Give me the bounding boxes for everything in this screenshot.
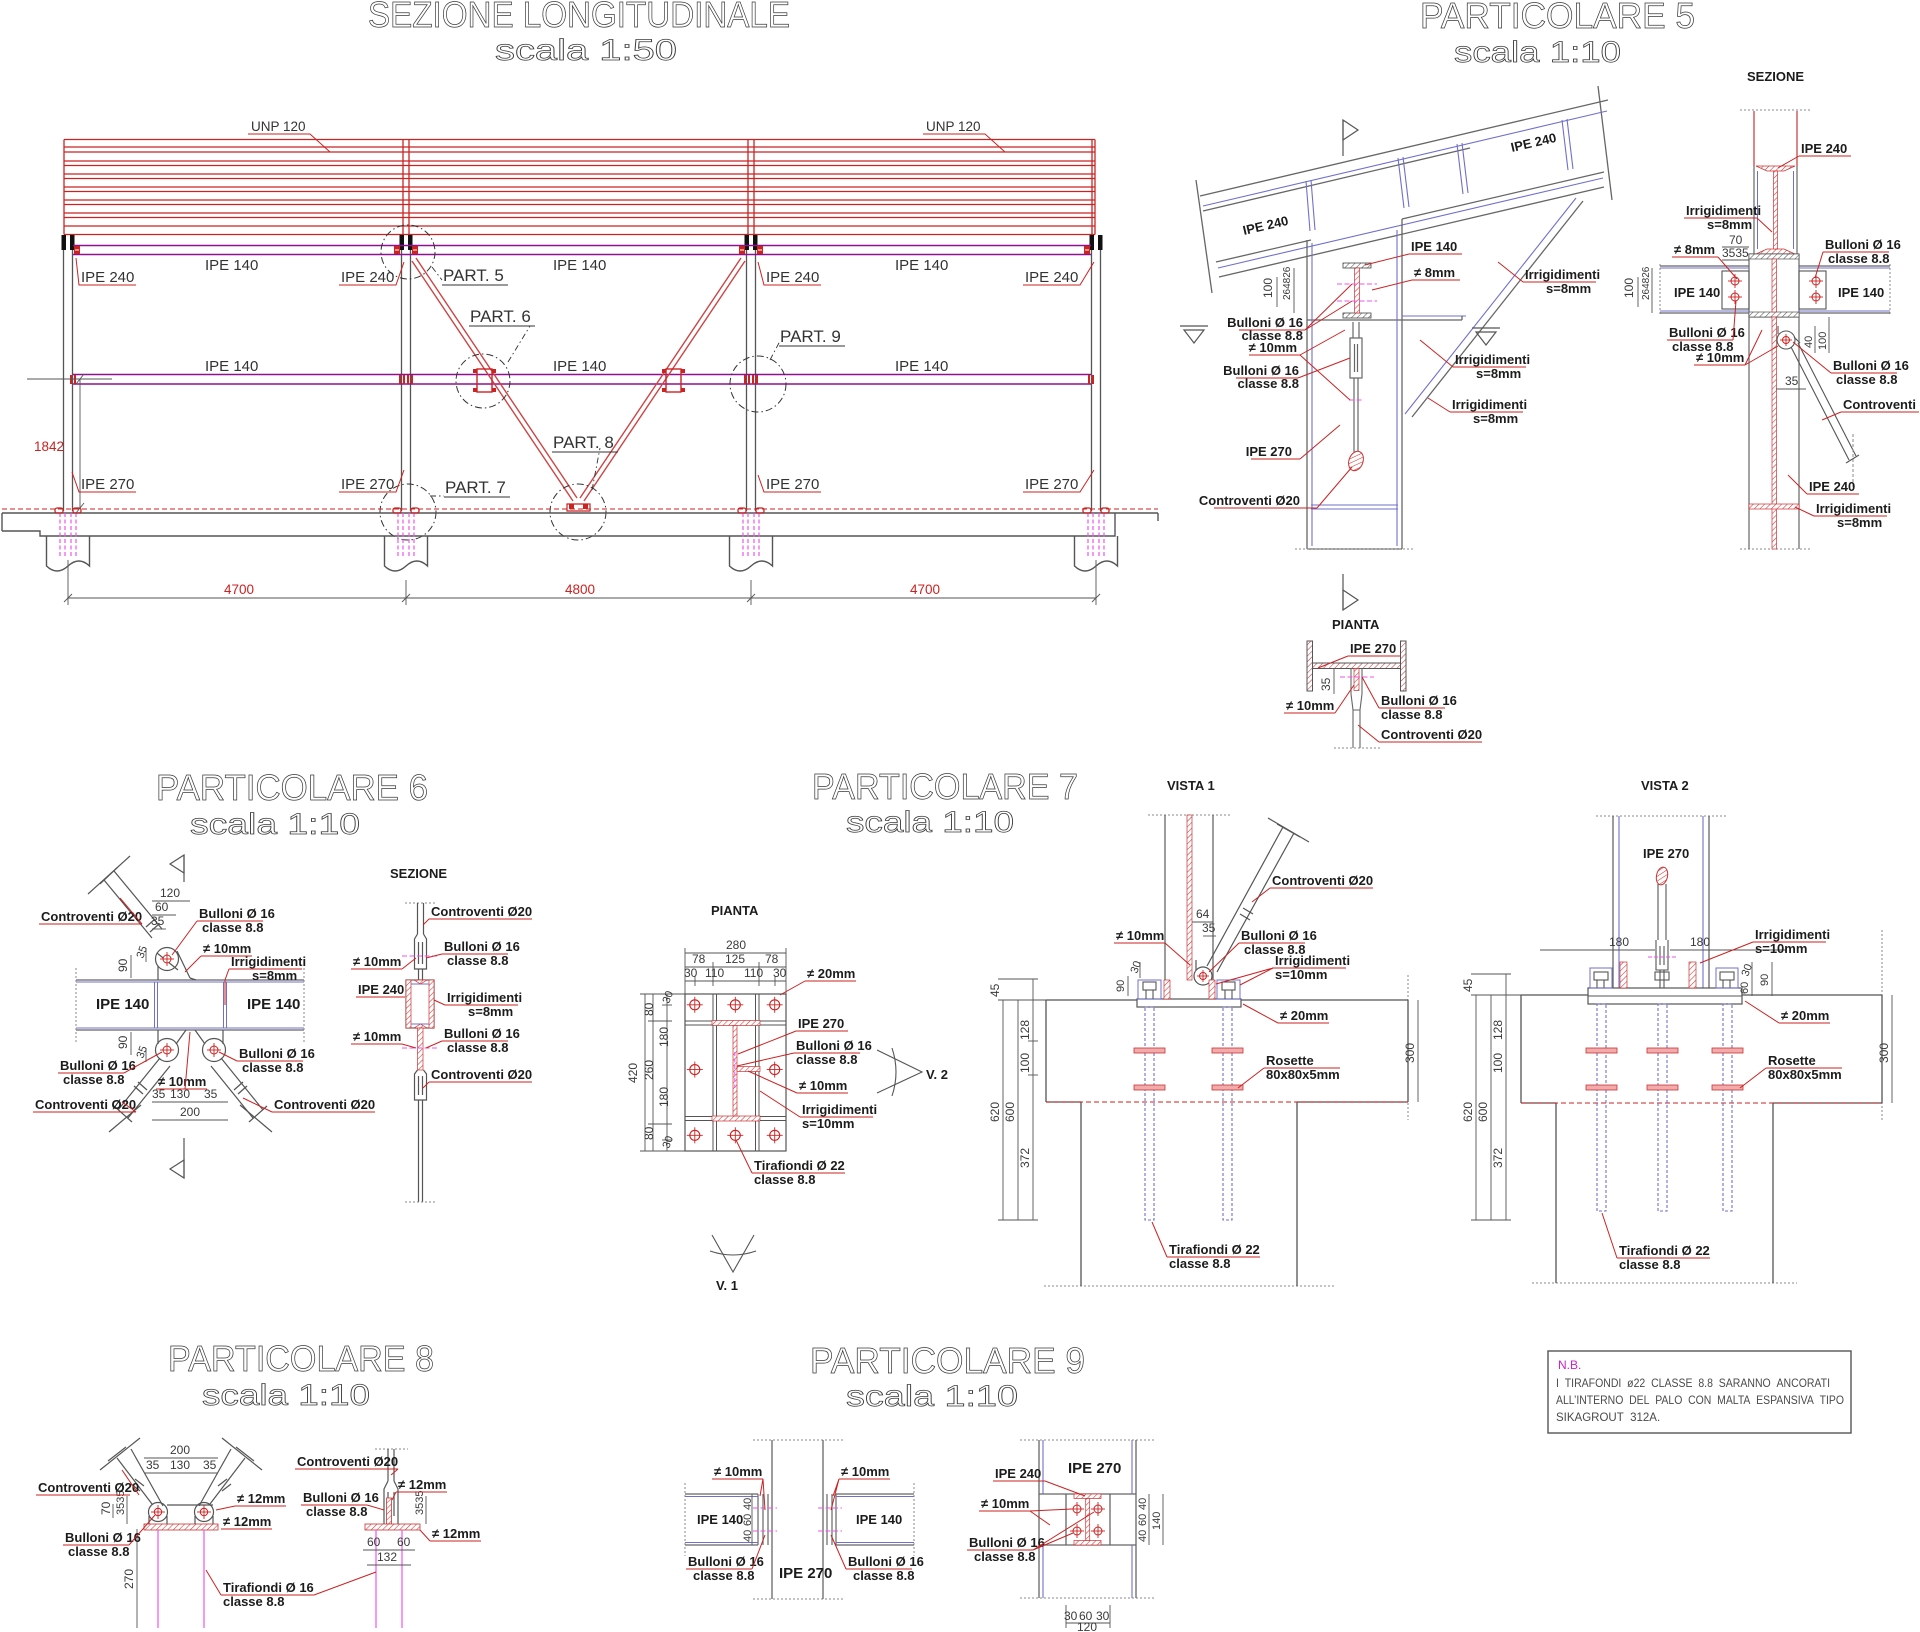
svg-text:620: 620 <box>988 1102 1002 1122</box>
svg-text:scala 1:10: scala 1:10 <box>1454 36 1621 69</box>
svg-text:≠ 10mm: ≠ 10mm <box>1696 350 1744 365</box>
svg-text:620: 620 <box>1461 1102 1475 1122</box>
svg-text:s=8mm: s=8mm <box>1707 217 1752 232</box>
svg-text:≠ 10mm: ≠ 10mm <box>841 1464 889 1479</box>
svg-text:Controventi Ø20: Controventi Ø20 <box>431 1067 532 1082</box>
svg-text:180: 180 <box>1690 935 1710 949</box>
svg-text:IPE 140: IPE 140 <box>247 996 300 1013</box>
svg-text:IPE 240: IPE 240 <box>341 269 394 286</box>
svg-text:Bulloni Ø 16: Bulloni Ø 16 <box>848 1554 924 1569</box>
svg-text:PARTICOLARE 6: PARTICOLARE 6 <box>156 767 428 808</box>
svg-text:IPE 240: IPE 240 <box>1801 141 1847 156</box>
svg-text:SIKAGROUT 312A.: SIKAGROUT 312A. <box>1556 1412 1660 1424</box>
svg-text:SEZIONE: SEZIONE <box>1747 69 1804 84</box>
svg-text:60: 60 <box>742 1514 754 1526</box>
svg-text:120: 120 <box>160 886 180 900</box>
svg-text:Bulloni Ø 16: Bulloni Ø 16 <box>1241 928 1317 943</box>
svg-text:420: 420 <box>626 1063 640 1083</box>
svg-text:280: 280 <box>726 938 746 952</box>
svg-text:IPE 240: IPE 240 <box>358 982 404 997</box>
svg-text:s=8mm: s=8mm <box>1476 366 1521 381</box>
svg-text:classe 8.8: classe 8.8 <box>306 1504 367 1519</box>
svg-text:classe 8.8: classe 8.8 <box>1836 372 1897 387</box>
svg-text:PART. 9: PART. 9 <box>780 327 841 346</box>
svg-text:Controventi Ø20: Controventi Ø20 <box>41 909 142 924</box>
svg-text:128: 128 <box>1018 1020 1032 1040</box>
svg-text:s=8mm: s=8mm <box>1473 411 1518 426</box>
svg-text:PART. 6: PART. 6 <box>470 307 531 326</box>
svg-text:Bulloni Ø 16: Bulloni Ø 16 <box>444 939 520 954</box>
svg-text:45: 45 <box>988 983 1002 997</box>
svg-text:264826: 264826 <box>1641 266 1652 300</box>
svg-text:100: 100 <box>1817 332 1829 350</box>
svg-text:Controventi Ø20: Controventi Ø20 <box>38 1480 139 1495</box>
svg-text:s=8mm: s=8mm <box>1837 515 1882 530</box>
svg-text:Irrigidimenti: Irrigidimenti <box>447 990 522 1005</box>
svg-text:Bulloni Ø 16: Bulloni Ø 16 <box>60 1058 136 1073</box>
svg-text:≠ 12mm: ≠ 12mm <box>398 1477 446 1492</box>
svg-text:ALL’INTERNO DEL PALO CON M: ALL’INTERNO DEL PALO CON MALTA ESPANSIVA… <box>1556 1395 1844 1407</box>
svg-text:PIANTA: PIANTA <box>1332 617 1380 632</box>
svg-text:60: 60 <box>367 1535 381 1549</box>
svg-text:≠ 20mm: ≠ 20mm <box>807 966 855 981</box>
svg-text:1842: 1842 <box>34 439 64 454</box>
svg-text:78: 78 <box>765 952 779 966</box>
svg-text:≠ 10mm: ≠ 10mm <box>353 954 401 969</box>
svg-text:140: 140 <box>1151 1512 1163 1530</box>
svg-text:35: 35 <box>151 914 165 928</box>
svg-text:PART. 5: PART. 5 <box>443 266 504 285</box>
svg-text:classe 8.8: classe 8.8 <box>1169 1256 1230 1271</box>
svg-text:30: 30 <box>1064 1609 1078 1623</box>
svg-text:128: 128 <box>1491 1020 1505 1040</box>
svg-text:VISTA 2: VISTA 2 <box>1641 778 1689 793</box>
svg-text:IPE 270: IPE 270 <box>1643 846 1689 861</box>
svg-text:Rosette: Rosette <box>1266 1053 1314 1068</box>
svg-text:Controventi Ø20: Controventi Ø20 <box>1272 873 1373 888</box>
svg-text:35: 35 <box>146 1458 160 1472</box>
svg-text:≠ 10mm: ≠ 10mm <box>353 1029 401 1044</box>
svg-text:Controventi Ø20: Controventi Ø20 <box>297 1454 398 1469</box>
svg-text:VISTA 1: VISTA 1 <box>1167 778 1215 793</box>
svg-text:Irrigidimenti: Irrigidimenti <box>1275 953 1350 968</box>
svg-text:40: 40 <box>1803 336 1815 348</box>
svg-text:IPE 270: IPE 270 <box>1350 641 1396 656</box>
svg-text:80x80x5mm: 80x80x5mm <box>1266 1067 1340 1082</box>
svg-text:≠ 12mm: ≠ 12mm <box>223 1514 271 1529</box>
svg-text:Tirafiondi Ø 22: Tirafiondi Ø 22 <box>1619 1243 1710 1258</box>
svg-text:Controventi Ø20: Controventi Ø20 <box>35 1097 136 1112</box>
svg-text:30: 30 <box>684 966 698 980</box>
svg-text:IPE 270: IPE 270 <box>1246 444 1292 459</box>
svg-text:classe 8.8: classe 8.8 <box>1619 1257 1680 1272</box>
svg-text:40: 40 <box>742 1530 754 1542</box>
svg-text:180: 180 <box>1609 935 1629 949</box>
svg-text:200: 200 <box>180 1105 200 1119</box>
svg-text:60: 60 <box>1739 982 1751 994</box>
svg-text:IPE 270: IPE 270 <box>1025 476 1078 493</box>
svg-text:≠ 10mm: ≠ 10mm <box>799 1078 847 1093</box>
svg-text:PARTICOLARE 8: PARTICOLARE 8 <box>168 1338 434 1379</box>
svg-text:100: 100 <box>1622 278 1636 298</box>
svg-text:V. 1: V. 1 <box>716 1278 738 1293</box>
svg-text:s=8mm: s=8mm <box>468 1004 513 1019</box>
svg-text:100: 100 <box>1491 1053 1505 1073</box>
svg-text:scala 1:10: scala 1:10 <box>846 806 1014 839</box>
svg-text:Bulloni Ø 16: Bulloni Ø 16 <box>65 1530 141 1545</box>
svg-text:Tirafiondi Ø 16: Tirafiondi Ø 16 <box>223 1580 314 1595</box>
svg-text:78: 78 <box>692 952 706 966</box>
svg-text:Irrigidimenti: Irrigidimenti <box>1686 203 1761 218</box>
svg-text:IPE 240: IPE 240 <box>1025 269 1078 286</box>
svg-text:PARTICOLARE 9: PARTICOLARE 9 <box>810 1340 1085 1381</box>
svg-text:s=8mm: s=8mm <box>1546 281 1591 296</box>
svg-text:≠ 10mm: ≠ 10mm <box>1286 698 1334 713</box>
svg-text:IPE 140: IPE 140 <box>96 996 149 1013</box>
svg-text:132: 132 <box>377 1550 397 1564</box>
svg-text:125: 125 <box>725 952 745 966</box>
svg-text:Bulloni Ø 16: Bulloni Ø 16 <box>199 906 275 921</box>
svg-text:60: 60 <box>397 1535 411 1549</box>
svg-text:40: 40 <box>1137 1530 1149 1542</box>
svg-text:s=10mm: s=10mm <box>802 1116 854 1131</box>
svg-text:90: 90 <box>1115 980 1127 992</box>
svg-text:IPE 140: IPE 140 <box>553 257 606 274</box>
svg-text:64: 64 <box>1196 907 1210 921</box>
svg-text:Controventi Ø20: Controventi Ø20 <box>431 904 532 919</box>
svg-text:IPE 240: IPE 240 <box>766 269 819 286</box>
svg-text:IPE 140: IPE 140 <box>1411 239 1457 254</box>
svg-text:IPE 270: IPE 270 <box>779 1565 832 1582</box>
svg-text:30: 30 <box>1096 1609 1110 1623</box>
svg-text:IPE 270: IPE 270 <box>81 476 134 493</box>
svg-text:110: 110 <box>744 966 763 980</box>
svg-text:≠ 20mm: ≠ 20mm <box>1781 1008 1829 1023</box>
svg-text:130: 130 <box>170 1458 190 1472</box>
svg-text:IPE 140: IPE 140 <box>553 358 606 375</box>
svg-text:≠ 10mm: ≠ 10mm <box>158 1074 206 1089</box>
svg-text:Irrigidimenti: Irrigidimenti <box>1755 927 1830 942</box>
svg-text:classe 8.8: classe 8.8 <box>693 1568 754 1583</box>
svg-text:90: 90 <box>116 1035 130 1049</box>
svg-text:Bulloni Ø 16: Bulloni Ø 16 <box>444 1026 520 1041</box>
svg-text:264826: 264826 <box>1282 266 1293 300</box>
svg-text:≠ 10mm: ≠ 10mm <box>1116 928 1164 943</box>
svg-text:260: 260 <box>642 1060 656 1080</box>
svg-text:IPE 270: IPE 270 <box>798 1016 844 1031</box>
svg-text:270: 270 <box>122 1569 136 1589</box>
svg-text:30: 30 <box>773 966 787 980</box>
svg-text:PIANTA: PIANTA <box>711 903 759 918</box>
svg-text:4700: 4700 <box>224 582 254 597</box>
svg-text:Irrigidimenti: Irrigidimenti <box>1525 267 1600 282</box>
svg-text:Tirafiondi Ø 22: Tirafiondi Ø 22 <box>1169 1242 1260 1257</box>
svg-text:I TIRAFONDI ø22 CLASSE 8.8: I TIRAFONDI ø22 CLASSE 8.8 SARANNO ANCOR… <box>1556 1378 1830 1390</box>
svg-text:60: 60 <box>1137 1514 1149 1526</box>
svg-text:UNP 120: UNP 120 <box>251 119 306 134</box>
svg-text:IPE 140: IPE 140 <box>895 257 948 274</box>
svg-text:classe 8.8: classe 8.8 <box>754 1172 815 1187</box>
svg-text:≠ 20mm: ≠ 20mm <box>1280 1008 1328 1023</box>
svg-text:PART. 8: PART. 8 <box>553 433 614 452</box>
svg-text:IPE 270: IPE 270 <box>341 476 394 493</box>
svg-text:90: 90 <box>1759 974 1771 986</box>
svg-text:4800: 4800 <box>565 582 595 597</box>
svg-text:SEZIONE LONGITUDINALE: SEZIONE LONGITUDINALE <box>368 0 790 35</box>
svg-text:600: 600 <box>1003 1102 1017 1122</box>
svg-text:100: 100 <box>1018 1053 1032 1073</box>
svg-text:35: 35 <box>1785 374 1799 388</box>
svg-text:N.B.: N.B. <box>1558 1358 1581 1372</box>
svg-text:4700: 4700 <box>910 582 940 597</box>
svg-text:scala 1:10: scala 1:10 <box>202 1379 370 1412</box>
svg-text:IPE 140: IPE 140 <box>895 358 948 375</box>
svg-text:classe 8.8: classe 8.8 <box>63 1072 124 1087</box>
svg-text:Bulloni Ø 16: Bulloni Ø 16 <box>796 1038 872 1053</box>
svg-text:classe 8.8: classe 8.8 <box>447 1040 508 1055</box>
svg-text:Controventi Ø20: Controventi Ø20 <box>1199 493 1300 508</box>
svg-text:80: 80 <box>642 1002 656 1016</box>
svg-text:s=8mm: s=8mm <box>252 968 297 983</box>
svg-text:classe 8.8: classe 8.8 <box>68 1544 129 1559</box>
svg-text:372: 372 <box>1018 1148 1032 1168</box>
svg-text:Controventi: Controventi <box>1843 397 1916 412</box>
svg-text:70: 70 <box>99 1501 113 1515</box>
svg-text:≠ 12mm: ≠ 12mm <box>432 1526 480 1541</box>
svg-text:UNP 120: UNP 120 <box>926 119 981 134</box>
svg-text:classe 8.8: classe 8.8 <box>223 1594 284 1609</box>
svg-text:Tirafiondi Ø 22: Tirafiondi Ø 22 <box>754 1158 845 1173</box>
svg-text:classe 8.8: classe 8.8 <box>242 1060 303 1075</box>
svg-text:3535: 3535 <box>1722 246 1749 260</box>
svg-text:≠ 10mm: ≠ 10mm <box>714 1464 762 1479</box>
svg-text:60: 60 <box>155 900 169 914</box>
svg-text:classe 8.8: classe 8.8 <box>1381 707 1442 722</box>
svg-text:IPE 240: IPE 240 <box>995 1466 1041 1481</box>
svg-text:Rosette: Rosette <box>1768 1053 1816 1068</box>
svg-text:35: 35 <box>1319 677 1333 691</box>
svg-text:110: 110 <box>705 966 724 980</box>
svg-text:IPE 240: IPE 240 <box>1809 479 1855 494</box>
svg-text:SEZIONE: SEZIONE <box>390 866 447 881</box>
svg-text:s=10mm: s=10mm <box>1275 967 1327 982</box>
svg-text:Bulloni Ø 16: Bulloni Ø 16 <box>1833 358 1909 373</box>
svg-text:IPE 140: IPE 140 <box>697 1512 743 1527</box>
svg-text:200: 200 <box>170 1443 190 1457</box>
svg-text:Controventi Ø20: Controventi Ø20 <box>1381 727 1482 742</box>
svg-text:≠ 12mm: ≠ 12mm <box>237 1491 285 1506</box>
svg-text:IPE 140: IPE 140 <box>856 1512 902 1527</box>
svg-text:100: 100 <box>1261 278 1275 298</box>
svg-text:Bulloni Ø 16: Bulloni Ø 16 <box>303 1490 379 1505</box>
svg-text:Bulloni Ø 16: Bulloni Ø 16 <box>1825 237 1901 252</box>
svg-text:IPE 240: IPE 240 <box>81 269 134 286</box>
svg-text:classe 8.8: classe 8.8 <box>974 1549 1035 1564</box>
svg-text:70: 70 <box>1729 233 1743 247</box>
svg-text:35: 35 <box>203 1458 217 1472</box>
svg-text:120: 120 <box>1077 1620 1097 1632</box>
svg-text:600: 600 <box>1476 1102 1490 1122</box>
svg-text:35: 35 <box>1202 921 1216 935</box>
svg-text:300: 300 <box>1877 1043 1891 1063</box>
svg-text:≠ 10mm: ≠ 10mm <box>981 1496 1029 1511</box>
svg-text:classe 8.8: classe 8.8 <box>853 1568 914 1583</box>
svg-text:classe 8.8: classe 8.8 <box>1828 251 1889 266</box>
svg-text:classe 8.8: classe 8.8 <box>796 1052 857 1067</box>
svg-text:80: 80 <box>642 1126 656 1140</box>
svg-text:Bulloni Ø 16: Bulloni Ø 16 <box>239 1046 315 1061</box>
svg-text:scala 1:10: scala 1:10 <box>846 1380 1018 1413</box>
svg-text:IPE 270: IPE 270 <box>1068 1460 1121 1477</box>
svg-text:180: 180 <box>657 1027 671 1047</box>
svg-text:90: 90 <box>116 958 130 972</box>
svg-text:3535: 3535 <box>414 1491 426 1515</box>
svg-text:classe 8.8: classe 8.8 <box>202 920 263 935</box>
svg-text:s=10mm: s=10mm <box>1755 941 1807 956</box>
svg-text:40: 40 <box>1137 1498 1149 1510</box>
svg-text:PARTICOLARE 7: PARTICOLARE 7 <box>812 766 1078 807</box>
svg-text:V. 2: V. 2 <box>926 1067 948 1082</box>
svg-text:IPE 270: IPE 270 <box>766 476 819 493</box>
svg-text:Irrigidimenti: Irrigidimenti <box>1452 397 1527 412</box>
svg-text:300: 300 <box>1403 1043 1417 1063</box>
svg-text:≠ 8mm: ≠ 8mm <box>1414 265 1455 280</box>
svg-text:IPE 140: IPE 140 <box>1674 285 1720 300</box>
svg-text:PART. 7: PART. 7 <box>445 478 506 497</box>
svg-text:45: 45 <box>1461 978 1475 992</box>
svg-text:Controventi Ø20: Controventi Ø20 <box>274 1097 375 1112</box>
svg-text:IPE 140: IPE 140 <box>205 257 258 274</box>
svg-text:Bulloni Ø 16: Bulloni Ø 16 <box>1381 693 1457 708</box>
svg-text:scala 1:50: scala 1:50 <box>495 34 677 67</box>
svg-text:Bulloni Ø 16: Bulloni Ø 16 <box>969 1535 1045 1550</box>
svg-text:Irrigidimenti: Irrigidimenti <box>1455 352 1530 367</box>
svg-text:PARTICOLARE 5: PARTICOLARE 5 <box>1420 0 1695 36</box>
svg-text:180: 180 <box>657 1087 671 1107</box>
svg-text:≠ 8mm: ≠ 8mm <box>1674 242 1715 257</box>
svg-text:IPE 140: IPE 140 <box>1838 285 1884 300</box>
svg-text:40: 40 <box>742 1498 754 1510</box>
svg-text:372: 372 <box>1491 1148 1505 1168</box>
svg-text:≠ 10mm: ≠ 10mm <box>1249 340 1297 355</box>
svg-text:Irrigidimenti: Irrigidimenti <box>1816 501 1891 516</box>
svg-text:Irrigidimenti: Irrigidimenti <box>802 1102 877 1117</box>
svg-text:Irrigidimenti: Irrigidimenti <box>231 954 306 969</box>
svg-text:IPE 140: IPE 140 <box>205 358 258 375</box>
svg-text:classe 8.8: classe 8.8 <box>447 953 508 968</box>
svg-text:80x80x5mm: 80x80x5mm <box>1768 1067 1842 1082</box>
svg-text:scala 1:10: scala 1:10 <box>190 808 360 841</box>
